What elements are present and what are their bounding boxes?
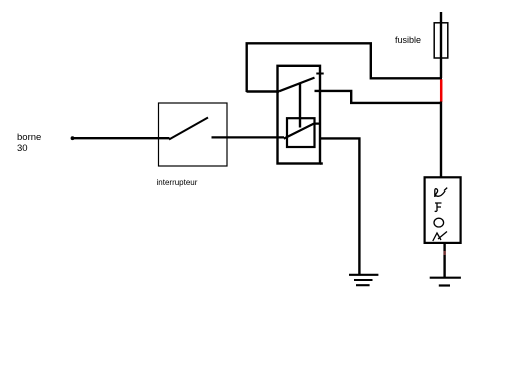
neon lamp box <box>425 177 461 243</box>
neon label letter N <box>433 232 447 242</box>
relay contact blade <box>279 78 315 92</box>
ground symbol under relay coil <box>349 275 378 285</box>
wire red feed segment <box>440 79 443 102</box>
faint red mark on neon ground wire <box>444 251 446 255</box>
node borne 30 label <box>17 132 41 154</box>
neon label letter N <box>435 188 447 197</box>
svg-text:interrupteur: interrupteur <box>157 178 198 187</box>
relay K1 outer box <box>278 66 321 164</box>
relay fixed contact tick <box>316 73 323 75</box>
fuse F1 box <box>434 23 448 58</box>
relay armature link vertical <box>299 83 301 128</box>
svg-text:30: 30 <box>17 143 28 154</box>
relay coil diagonal <box>284 124 320 139</box>
relay coil box <box>287 118 315 147</box>
ground symbol under neon lamp <box>430 278 461 286</box>
switch S1 interrupteur box <box>159 103 228 166</box>
relay box bottom nub <box>320 162 323 164</box>
switch S1 blade <box>169 118 208 140</box>
wire top loop from relay to fuse <box>247 43 442 92</box>
neon label letter E <box>435 203 442 212</box>
wire fuse node to neon lamp <box>440 102 442 178</box>
wire neon lamp to ground <box>443 243 445 278</box>
svg-text:borne: borne <box>17 132 41 143</box>
wire relay common to left node <box>247 90 280 92</box>
wire relay coil to ground <box>319 137 360 274</box>
wire from borne 30 to interrupteur <box>71 136 170 140</box>
wire relay contact to lamp feed <box>315 91 443 103</box>
neon label letter O <box>434 218 444 227</box>
wire interrupteur to relay coil <box>212 136 285 138</box>
wire battery feed through fuse <box>440 12 442 78</box>
svg-text:fusible: fusible <box>395 35 421 45</box>
